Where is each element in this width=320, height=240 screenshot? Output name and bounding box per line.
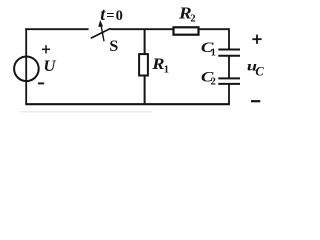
- resistor R1 body: [139, 54, 148, 75]
- wire C2 to bottom: [228, 84, 230, 104]
- svg-text:1: 1: [164, 64, 169, 75]
- svg-text:1: 1: [211, 48, 216, 59]
- svg-text:2: 2: [190, 13, 195, 24]
- voltage source U circle: [14, 57, 39, 82]
- label + of uC: [252, 35, 261, 44]
- wire R1 bottom lead: [144, 75, 146, 104]
- svg-text:U: U: [43, 59, 56, 75]
- label uC: [247, 58, 265, 78]
- wire left vertical through source: [25, 28, 27, 104]
- label t = 0: [100, 4, 123, 24]
- svg-text:=: =: [106, 8, 114, 24]
- switch actuate arrow: [98, 20, 104, 41]
- wire between C1 and C2: [228, 56, 230, 78]
- capacitor C1: [218, 50, 240, 56]
- wire junction to R1: [144, 29, 146, 55]
- label S: [109, 38, 118, 55]
- switch S blade: [91, 28, 111, 38]
- wire right vertical top (R2 to C1): [228, 28, 230, 49]
- wire bottom: [25, 103, 230, 105]
- label R2: [178, 4, 196, 25]
- svg-text:S: S: [109, 38, 118, 55]
- label U value: [43, 59, 56, 75]
- wire top-left from source to switch left contact: [25, 28, 88, 30]
- svg-text:R: R: [151, 55, 164, 73]
- svg-text:C: C: [255, 65, 264, 79]
- wire from switch right contact to R2: [110, 28, 229, 30]
- capacitor C2: [218, 78, 240, 84]
- label C2: [201, 68, 216, 87]
- label C1: [201, 39, 216, 59]
- label - of source: [38, 82, 44, 84]
- svg-text:0: 0: [116, 8, 123, 24]
- label + of source: [42, 45, 50, 53]
- svg-text:2: 2: [211, 77, 216, 88]
- resistor R2 body: [174, 27, 199, 34]
- label - of uC: [251, 100, 260, 102]
- label R1: [151, 55, 169, 75]
- scan smudge under bottom wire: [20, 111, 152, 113]
